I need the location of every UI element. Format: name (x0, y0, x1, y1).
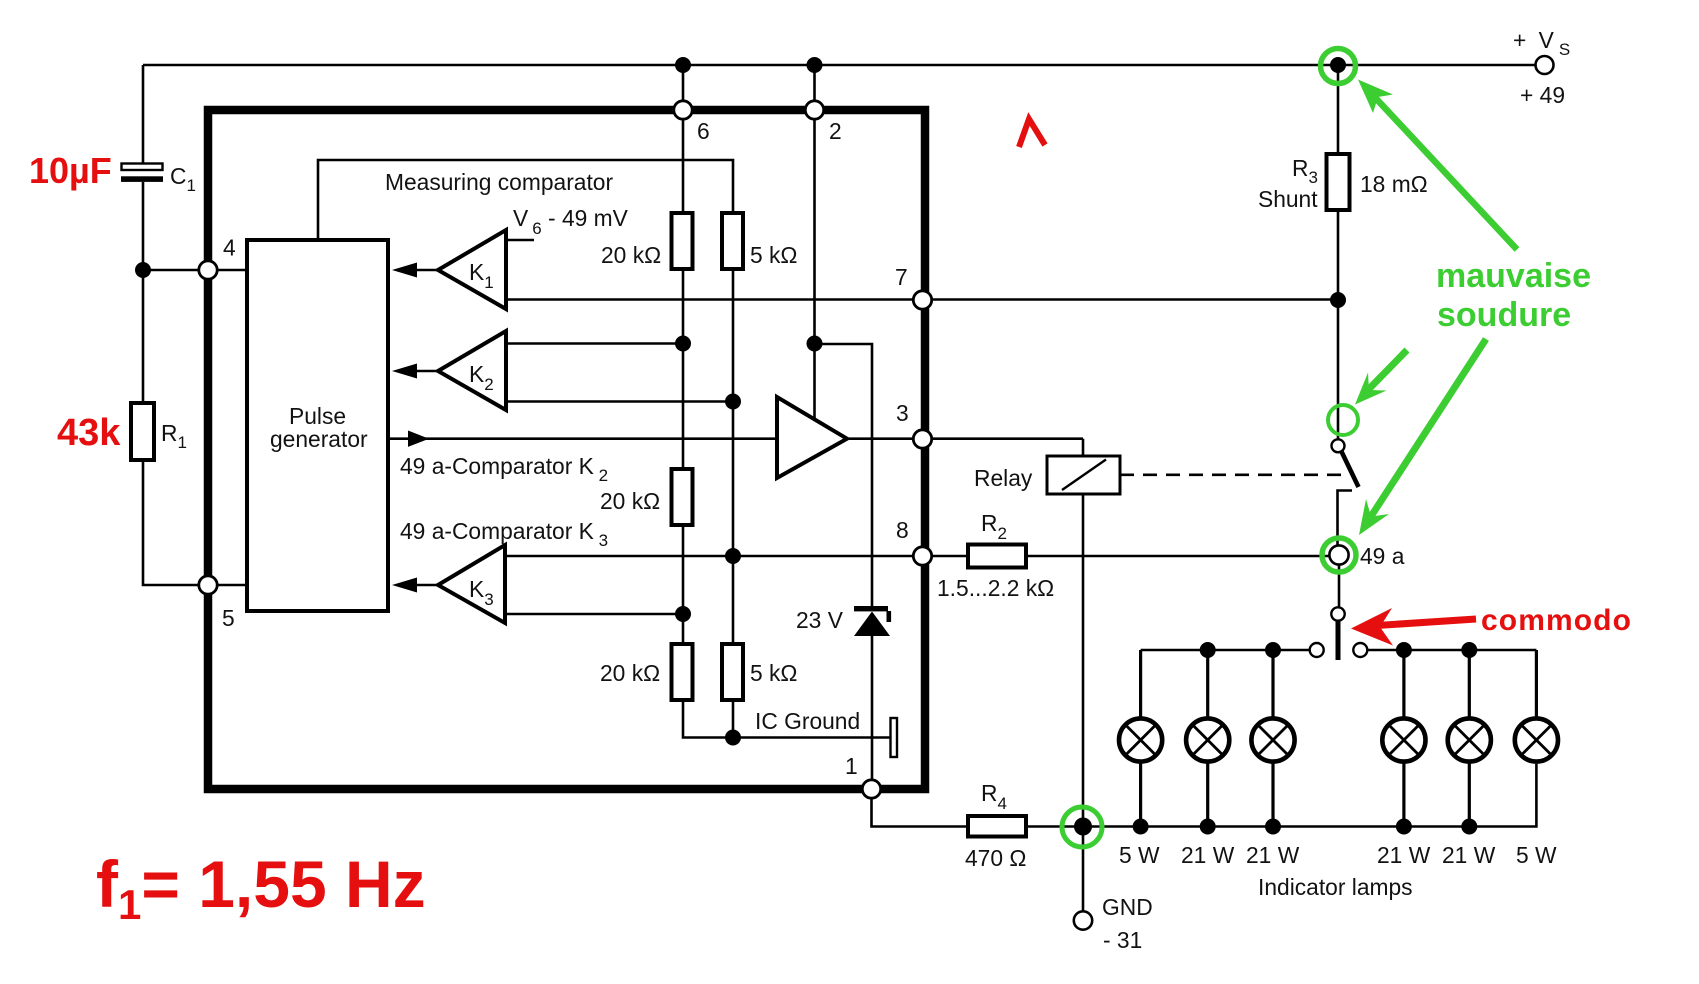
node shunt pin7 (1330, 292, 1346, 308)
svg-text:commodo: commodo (1481, 604, 1632, 637)
comparator K1 (438, 230, 506, 309)
capacitor C1 (121, 164, 163, 182)
node top rail lamp4 (1396, 642, 1412, 658)
wire bottom lamp rail (1026, 764, 1536, 827)
arrow K2 to pulse generator (416, 370, 438, 373)
svg-text:6: 6 (697, 118, 710, 144)
wire 20k top to K2 node (682, 269, 685, 469)
node top rail lamp3 (1265, 642, 1281, 658)
green annotation circle on lamp node (1062, 807, 1102, 847)
svg-text:5 kΩ: 5 kΩ (750, 242, 797, 268)
green arrow to switch (1355, 350, 1407, 405)
svg-text:49 a: 49 a (1360, 543, 1405, 569)
wire lamp6 top stub (1535, 650, 1538, 717)
wire R1 to pin5 row (143, 460, 247, 585)
node K2 5k (725, 394, 741, 410)
wire K1 minus stub V6 (506, 239, 534, 242)
wire zener to pin1 (871, 636, 874, 780)
svg-text:R1: R1 (161, 420, 187, 452)
svg-text:470 Ω: 470 Ω (965, 845, 1026, 871)
wire zener branch (815, 344, 873, 606)
green arrow to 49a (1359, 339, 1486, 535)
wire lamp2 bottom stub (1206, 763, 1209, 827)
node lamp rail R4 (1074, 818, 1092, 836)
svg-text:V6 - 49 mV: V6 - 49 mV (513, 205, 629, 238)
svg-text:4: 4 (223, 235, 236, 261)
svg-text:Indicator lamps: Indicator lamps (1258, 874, 1413, 900)
svg-text:21 W: 21 W (1181, 842, 1235, 868)
wire K2 top input (506, 342, 683, 345)
pin 5 (199, 576, 217, 594)
wire 5k bot to ICground row (732, 700, 735, 738)
svg-text:C1: C1 (170, 163, 196, 195)
wire lamp5 top stub (1468, 650, 1471, 717)
svg-text:+ 49: + 49 (1520, 82, 1565, 108)
arrow K3 to pulse generator (416, 584, 438, 587)
wire K3 bottom input (505, 613, 683, 616)
svg-text:7: 7 (895, 264, 908, 290)
pin 1 (862, 780, 880, 798)
arrow K1 to pulse generator (416, 269, 438, 272)
zener diode 23V (854, 606, 891, 636)
relay K5 (974, 456, 1120, 494)
terminal GND (1074, 911, 1092, 929)
pin 8 (913, 547, 931, 565)
pulse generator block (247, 240, 388, 611)
lamp L5 21W (1448, 718, 1491, 761)
wire GND drop (1082, 827, 1085, 912)
wire lamp1 bottom stub (1139, 763, 1142, 827)
svg-text:f1= 1,55 Hz: f1= 1,55 Hz (96, 847, 426, 928)
IC package border U1 (208, 110, 925, 789)
wire pin7 row (506, 298, 1332, 301)
wire 20k bot to ICground row (683, 700, 891, 738)
resistor 5k top (722, 213, 743, 269)
wire left branch top (142, 65, 145, 164)
wire pin3 corner down to relay (1082, 439, 1085, 456)
pin 4 (199, 261, 217, 279)
node bottom rail lamp4 (1396, 819, 1412, 835)
node K3 20k (675, 606, 691, 622)
node bottom rail lamp1 (1133, 819, 1149, 835)
wire top supply rail (143, 64, 1536, 67)
node top rail lamp5 (1461, 642, 1477, 658)
svg-text:20 kΩ: 20 kΩ (600, 488, 660, 514)
wire pin1 to R4 (872, 797, 969, 827)
commodo pivot circle (1331, 607, 1344, 620)
terminal 49a circle (1329, 545, 1348, 564)
svg-text:5: 5 (222, 605, 235, 631)
node top rail lamp2 (1200, 642, 1216, 658)
svg-text:21 W: 21 W (1442, 842, 1496, 868)
lamp L1 5W (1119, 718, 1162, 761)
lamp L4 21W (1382, 718, 1425, 761)
wire lamp3 top stub (1271, 650, 1274, 717)
pin 6 (674, 101, 692, 119)
svg-text:Shunt: Shunt (1258, 186, 1318, 212)
wire pin7 node to switch pivot (1337, 300, 1340, 439)
wire pin2 drop (813, 65, 816, 418)
wire relay dashed link (1120, 473, 1344, 476)
resistor 20k mid (672, 469, 693, 525)
svg-text:Measuring comparator: Measuring comparator (385, 169, 613, 195)
wire lamp5 bottom stub (1468, 763, 1471, 827)
wire feedback pulsegen to 5k (318, 160, 733, 240)
node C1 R1 pin4 (135, 262, 151, 278)
wire relay down to lamp node (1082, 494, 1085, 827)
node pin8 5k (725, 548, 741, 564)
svg-text:1: 1 (845, 753, 858, 779)
svg-text:2: 2 (829, 118, 842, 144)
comparator K2 (438, 331, 506, 410)
svg-text:49 a-Comparator K 2: 49 a-Comparator K 2 (400, 453, 608, 485)
lamp wattage labels (1119, 842, 1557, 868)
node bottom rail lamp2 (1200, 819, 1216, 835)
wire 5k col pin8 to 5k bot (732, 556, 735, 644)
wire opamp out to pin3 corner (847, 437, 1083, 440)
wire Vs branch to shunt (1337, 65, 1340, 154)
wire lamp top rail left (1141, 649, 1310, 652)
wire lamp1 top stub (1139, 650, 1142, 717)
pin 2 (805, 101, 823, 119)
svg-text:+ VS: + VS (1513, 27, 1573, 59)
node bottom rail lamp3 (1265, 819, 1281, 835)
svg-text:3: 3 (896, 400, 909, 426)
wire lamp2 top stub (1206, 650, 1209, 717)
green arrow to Vs node (1358, 80, 1517, 250)
green annotation circle on switch (1328, 405, 1358, 435)
svg-text:20 kΩ: 20 kΩ (600, 660, 660, 686)
lamp L2 21W (1186, 718, 1229, 761)
node top rail pin6 (675, 57, 691, 73)
resistor R1 (131, 403, 154, 460)
svg-text:generator: generator (270, 426, 368, 452)
svg-text:5 W: 5 W (1119, 842, 1160, 868)
svg-text:8: 8 (896, 517, 909, 543)
node zener branch (807, 336, 823, 352)
wire 20k mid to K3 node (682, 525, 685, 644)
switch pivot contact (1332, 439, 1345, 452)
red arrow commodo (1351, 608, 1476, 646)
switch blade relay contact (1341, 451, 1359, 488)
svg-text:- 31: - 31 (1103, 927, 1142, 953)
node top rail shunt (1330, 57, 1346, 73)
svg-text:mauvaise: mauvaise (1436, 257, 1591, 295)
svg-text:5 W: 5 W (1516, 842, 1557, 868)
svg-text:R2: R2 (981, 510, 1007, 543)
node ICground 5k (725, 730, 741, 746)
svg-text:R4: R4 (981, 780, 1007, 813)
wire pin8 row K3 to R2 (505, 555, 968, 558)
wire pin8 R2 to 49a (1026, 555, 1330, 558)
node K2 20k (675, 336, 691, 352)
svg-text:GND: GND (1102, 894, 1153, 920)
pin circles (199, 101, 932, 798)
op-amp output stage (777, 397, 847, 478)
wire lamp4 top stub (1402, 650, 1405, 717)
resistor R3 shunt (1327, 154, 1350, 210)
green annotation circle on 49a (1322, 538, 1356, 572)
red caret mark (1019, 119, 1045, 147)
svg-text:43k: 43k (57, 412, 121, 454)
commodo switch blade (1336, 621, 1341, 660)
wire lamp4 bottom stub (1402, 763, 1405, 827)
svg-text:IC Ground: IC Ground (755, 708, 860, 734)
indicator lamps (1119, 718, 1558, 761)
green annotation circle on Vs node (1321, 49, 1356, 84)
resistor R4 (968, 816, 1026, 837)
svg-text:1.5...2.2 kΩ: 1.5...2.2 kΩ (937, 575, 1054, 601)
commodo right contact (1353, 643, 1367, 657)
svg-text:R3: R3 (1292, 155, 1318, 187)
wire C1 to node4 (142, 182, 145, 270)
resistor 20k top (672, 213, 693, 269)
svg-text:5 kΩ: 5 kΩ (750, 660, 797, 686)
svg-text:10µF: 10µF (29, 150, 112, 191)
pin 7 (913, 291, 931, 309)
wire 49a to commodo (1338, 565, 1341, 608)
wire node4 to pin4 (143, 269, 247, 272)
pin 3 (913, 430, 931, 448)
svg-text:20 kΩ: 20 kΩ (601, 242, 661, 268)
comparator K3 (438, 545, 505, 623)
svg-text:21 W: 21 W (1377, 842, 1431, 868)
wire shunt to pin7 node (1337, 210, 1340, 300)
lamp L6 5W (1515, 718, 1558, 761)
arrow pulse generator output (390, 437, 777, 440)
wire pin6 drop (682, 65, 685, 213)
node bottom rail lamp5 (1461, 819, 1477, 835)
wire K2 bottom input (506, 400, 733, 403)
terminal +Vs (1536, 56, 1554, 74)
wire switch lower contact (1338, 491, 1353, 546)
wire 5k top to K2 lower node (732, 269, 735, 556)
svg-text:18 mΩ: 18 mΩ (1360, 171, 1428, 197)
lamp L3 21W (1251, 718, 1294, 761)
svg-text:soudure: soudure (1437, 296, 1571, 334)
IC ground bar (891, 718, 898, 757)
resistor 20k bottom (672, 644, 693, 700)
svg-text:Relay: Relay (974, 465, 1033, 491)
resistor R2 (968, 545, 1026, 568)
commodo left contact (1310, 643, 1324, 657)
wire lamp top rail right (1367, 649, 1536, 652)
wire lamp3 bottom stub (1271, 763, 1274, 827)
wire node4 to R1 (142, 270, 145, 403)
node top rail pin2 (807, 57, 823, 73)
svg-text:21 W: 21 W (1246, 842, 1300, 868)
svg-text:23 V: 23 V (796, 607, 844, 633)
resistor 5k bottom (722, 644, 743, 700)
pin number labels (222, 118, 909, 779)
